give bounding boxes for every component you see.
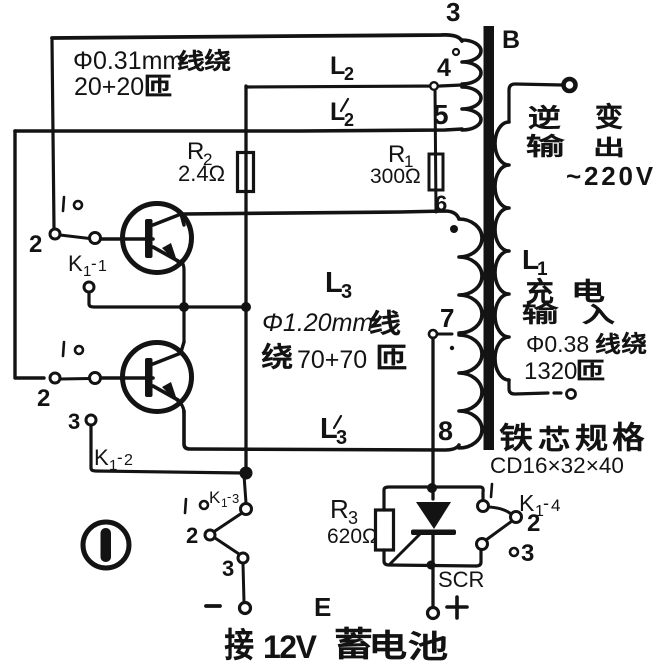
svg-text:R: R (388, 141, 405, 168)
svg-text:8: 8 (438, 416, 453, 446)
svg-text:2: 2 (37, 385, 50, 412)
svg-text:3: 3 (232, 491, 239, 506)
svg-text:620Ω: 620Ω (327, 525, 378, 548)
svg-text:2: 2 (344, 64, 354, 84)
svg-text:-: - (227, 489, 231, 504)
svg-text:3: 3 (222, 556, 234, 581)
svg-text:-: - (91, 254, 97, 273)
svg-text:7: 7 (440, 303, 454, 333)
svg-text:3: 3 (521, 540, 534, 567)
svg-text:2: 2 (527, 510, 540, 537)
svg-text:6: 6 (435, 191, 447, 216)
svg-text:L: L (330, 52, 345, 80)
svg-text:2.4Ω: 2.4Ω (178, 161, 225, 186)
svg-text:5: 5 (433, 99, 449, 130)
svg-text:K: K (209, 488, 221, 507)
svg-text:1320: 1320 (524, 358, 577, 385)
svg-text:2: 2 (124, 452, 133, 469)
svg-text:2: 2 (344, 110, 354, 130)
svg-text:-: - (543, 493, 549, 513)
svg-text:2: 2 (29, 231, 42, 258)
svg-text:~220V: ~220V (566, 161, 656, 191)
svg-text:2: 2 (186, 523, 198, 548)
svg-text:K: K (68, 251, 83, 276)
svg-text:R: R (330, 494, 349, 524)
svg-text:12V: 12V (263, 629, 318, 665)
svg-text:300Ω: 300Ω (370, 165, 421, 188)
svg-text:4: 4 (551, 496, 560, 515)
svg-text:3: 3 (341, 281, 352, 303)
svg-text:4: 4 (437, 54, 451, 82)
svg-text:-: - (117, 448, 123, 467)
svg-text:SCR: SCR (438, 567, 484, 592)
svg-text:E: E (314, 592, 331, 622)
svg-text:1: 1 (537, 259, 548, 280)
svg-text:3: 3 (336, 427, 347, 449)
svg-text:B: B (502, 26, 520, 54)
svg-text:1: 1 (98, 258, 107, 275)
svg-text:3: 3 (68, 409, 80, 434)
svg-text:CD16×32×40: CD16×32×40 (490, 453, 624, 478)
svg-text:Φ1.20mm: Φ1.20mm (262, 309, 373, 337)
svg-text:20+20: 20+20 (74, 73, 144, 101)
svg-text:Φ0.38: Φ0.38 (526, 331, 589, 357)
svg-text:L: L (330, 98, 345, 126)
svg-text:Φ0.31mm: Φ0.31mm (73, 47, 183, 75)
svg-text:K: K (94, 445, 109, 470)
svg-text:3: 3 (446, 0, 460, 27)
svg-text:70+70: 70+70 (297, 346, 367, 374)
